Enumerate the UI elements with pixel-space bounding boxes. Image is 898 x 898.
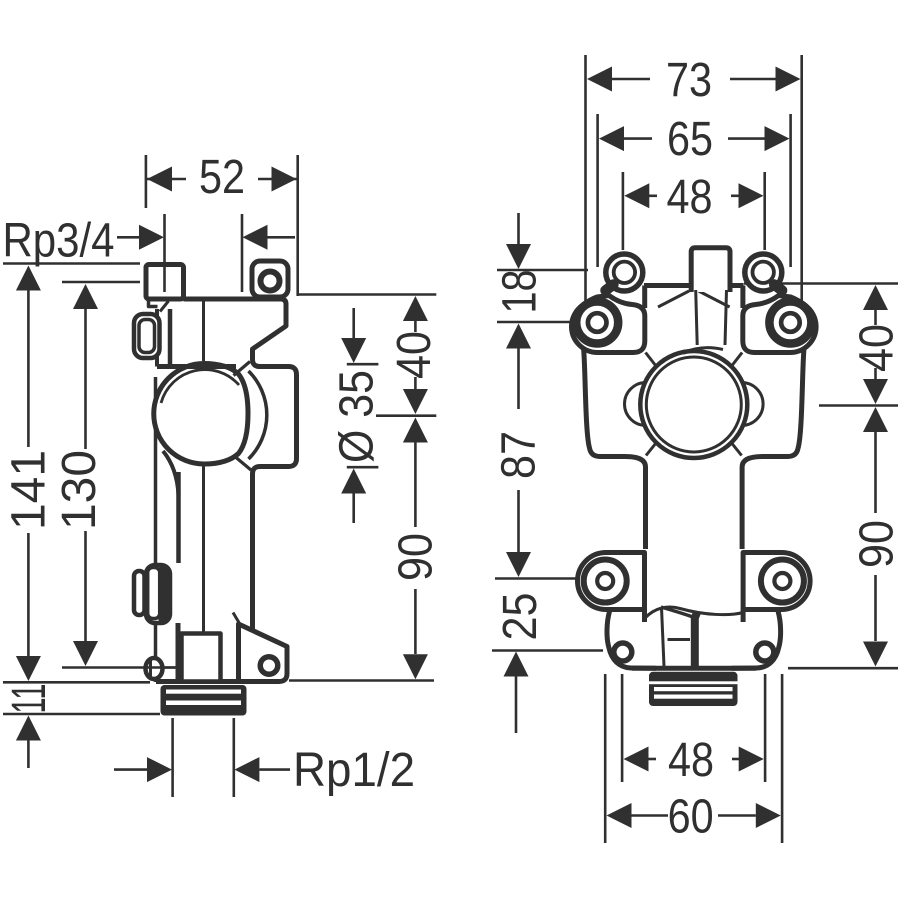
bottom small clip bbox=[134, 571, 145, 615]
dimension 90 right view bbox=[863, 407, 888, 667]
wire: 48 ext left bbox=[622, 172, 625, 250]
dimension Rp3/4 leader bbox=[117, 225, 295, 250]
svg-text:90: 90 bbox=[851, 520, 898, 568]
svg-text:60: 60 bbox=[668, 791, 714, 844]
body right outline with step bbox=[253, 299, 297, 631]
valve body bulge bbox=[154, 364, 248, 465]
dimension 40 right view bbox=[863, 285, 888, 404]
svg-text:73: 73 bbox=[666, 54, 712, 107]
plate right side and shoulder bbox=[742, 348, 804, 549]
side lobe right bbox=[742, 383, 764, 426]
foot bracket bbox=[239, 624, 288, 682]
svg-text:141: 141 bbox=[3, 450, 56, 530]
dimension 60 bbox=[607, 803, 781, 828]
wire: 18 ref top bbox=[497, 269, 588, 272]
ear blob tail right bbox=[774, 285, 782, 291]
wire: bottom ref right bbox=[788, 667, 898, 670]
bottom clip inner bbox=[148, 568, 160, 619]
svg-text:90: 90 bbox=[390, 533, 443, 581]
bottom tab right bbox=[732, 612, 781, 669]
wire: 11 bottom ref line bbox=[3, 713, 160, 716]
screw pin bbox=[146, 658, 163, 679]
big bore inner ring bbox=[646, 357, 741, 452]
washer bbox=[576, 302, 618, 344]
ear hole left view bbox=[261, 272, 280, 291]
bracket peak tick bbox=[233, 613, 241, 627]
svg-text:87: 87 bbox=[493, 431, 546, 479]
washer pad top-right bbox=[743, 296, 816, 353]
inner arc of bulge bbox=[161, 370, 239, 403]
diagonal tick under tab bbox=[160, 301, 169, 312]
neck stub below pad bbox=[642, 610, 647, 623]
dimension Rp1/2 bbox=[114, 757, 290, 782]
wire: Rp1/2 ext line right bbox=[233, 718, 236, 797]
bottom washer right outer bbox=[761, 560, 804, 603]
wire: 25 ref bottom bbox=[492, 649, 603, 652]
side lobe bbox=[625, 383, 647, 426]
crescent arc right of bulge bbox=[249, 371, 267, 459]
lever detail bottom centre bbox=[662, 608, 665, 667]
plate corner stub right bbox=[740, 286, 745, 309]
plate corner stub bbox=[642, 286, 647, 309]
socket block bbox=[182, 634, 221, 682]
wire: 18 ref bottom bbox=[497, 321, 585, 324]
svg-text:Rp1/2: Rp1/2 bbox=[293, 744, 415, 797]
cone tick bore to shoulder bbox=[646, 443, 656, 456]
washer top-right outer bbox=[769, 302, 811, 344]
chamfer tick tab to washer right bbox=[699, 291, 730, 307]
top clip inner bbox=[139, 320, 155, 353]
wire: 90 bottom ref line left view bbox=[289, 679, 434, 682]
side and shoulder outline bbox=[584, 348, 646, 549]
dimension 73 bbox=[587, 67, 801, 92]
body top edge bbox=[184, 297, 284, 302]
svg-text:18: 18 bbox=[494, 270, 547, 314]
wire: Rp1/2 ext line left bbox=[171, 718, 174, 797]
tab interior lines bbox=[696, 290, 698, 345]
dimension diameter 35 bbox=[341, 308, 378, 523]
cone tick upper bbox=[234, 362, 251, 376]
neck bottom arc bbox=[645, 607, 743, 618]
threaded connector left view bbox=[161, 685, 247, 716]
wire: interior bore line upper bbox=[202, 299, 205, 361]
chamfer tick tab to washer bbox=[658, 291, 689, 307]
svg-text:52: 52 bbox=[199, 151, 245, 204]
wire: Rp3/4 second ext line bbox=[241, 214, 244, 292]
bottom pad right bbox=[743, 553, 810, 610]
washer top-right inner bbox=[781, 313, 800, 332]
ledge under tab bbox=[157, 364, 236, 369]
dimension 48 top bbox=[624, 183, 763, 208]
svg-text:65: 65 bbox=[667, 113, 713, 166]
wire: extension line 52 left bbox=[145, 155, 148, 208]
wire: rail lower verticals bbox=[154, 623, 158, 682]
svg-text:40: 40 bbox=[851, 324, 898, 372]
wire: bottom 60 ext right bbox=[781, 674, 784, 843]
wire: bottom 48 ext left bbox=[621, 674, 624, 782]
bottom edge bbox=[632, 666, 756, 671]
dimension 11 bbox=[16, 716, 41, 769]
wire: top edge extension to 40 dim bbox=[298, 293, 436, 296]
wire: circle centre ref line left view bbox=[376, 414, 436, 417]
dimension 130 bbox=[73, 284, 98, 666]
dimension 87 bbox=[506, 490, 531, 577]
bottom pad bbox=[578, 553, 645, 610]
ear ring top-right bbox=[752, 262, 773, 283]
wire: bottom 60 ext left bbox=[604, 674, 607, 843]
top clip outer bbox=[134, 314, 160, 358]
washer pad top bbox=[572, 296, 645, 353]
cone tick pad to bore right bbox=[732, 353, 743, 367]
ear blob top-right bbox=[745, 254, 782, 291]
wire: 65 ext left bbox=[596, 114, 599, 267]
wire: 48 ext right bbox=[763, 172, 766, 250]
wire: 141 top ref line bbox=[3, 262, 140, 265]
ear tab left view bbox=[252, 261, 288, 297]
bottom ear ring bbox=[614, 643, 632, 661]
right half of plate body (mirrored) bbox=[699, 254, 817, 668]
wire: 73 ext left bbox=[584, 55, 587, 350]
svg-text:Ø 35: Ø 35 bbox=[331, 370, 384, 463]
left half of plate body bbox=[572, 254, 690, 668]
threaded connector right view bbox=[649, 672, 738, 706]
wire: 65 ext right bbox=[789, 114, 792, 267]
dimension 52 bbox=[147, 167, 297, 192]
wire: 130 top ref line bbox=[62, 281, 140, 284]
bottom washer bbox=[584, 560, 627, 603]
svg-text:130: 130 bbox=[53, 450, 106, 530]
wire: 141 bottom ref line bbox=[3, 681, 150, 684]
top tab bbox=[146, 265, 184, 300]
wire: tab centreline inside tab bbox=[163, 267, 166, 292]
dimension 18 bbox=[506, 213, 531, 409]
wire: interior bore line lower bbox=[202, 466, 205, 633]
svg-text:11: 11 bbox=[3, 684, 56, 714]
wire: Rp3/4 ext line at tab centre bbox=[163, 214, 166, 262]
bottom ear ring right bbox=[756, 643, 774, 661]
rail upper verticals bbox=[155, 309, 159, 367]
svg-text:40: 40 bbox=[388, 331, 441, 379]
neck stub right bbox=[741, 610, 746, 623]
cone tick bore to shoulder right bbox=[732, 443, 742, 456]
wire: bottom 48 ext right bbox=[764, 674, 767, 782]
wire: 130 bottom ref line through screw bbox=[62, 666, 176, 669]
wire: extension line 52 right / body right plane bbox=[296, 155, 299, 296]
wire: rail mid verticals bbox=[154, 377, 158, 563]
dimension 25 bbox=[504, 652, 529, 734]
dimension 65 bbox=[599, 126, 790, 151]
wire: top edge extension right bbox=[744, 282, 898, 285]
cone tick pad to bore bbox=[646, 353, 657, 367]
bottom tab bbox=[607, 612, 656, 669]
svg-text:48: 48 bbox=[667, 171, 713, 224]
svg-text:Rp3/4: Rp3/4 bbox=[3, 215, 115, 268]
svg-text:48: 48 bbox=[668, 734, 714, 787]
plate top edge bbox=[644, 283, 691, 288]
bracket hole bbox=[260, 657, 278, 675]
bottom edge left view bbox=[156, 679, 240, 684]
dimension 90 left view bbox=[403, 418, 428, 680]
wire: 25 ref top bbox=[495, 577, 588, 580]
bottom clip dark bar bbox=[159, 566, 171, 624]
dimension 48 bottom bbox=[624, 747, 764, 772]
dimension 40 left view bbox=[403, 296, 428, 414]
big bore outer ring bbox=[640, 351, 747, 458]
svg-text:25: 25 bbox=[494, 593, 547, 641]
wire: 73 ext right bbox=[800, 55, 803, 350]
bottom washer right inner bbox=[774, 573, 790, 589]
cone tick lower bbox=[233, 455, 251, 470]
ear ring bbox=[614, 262, 635, 283]
dimension 141 bbox=[16, 266, 41, 682]
ear blob bbox=[606, 254, 643, 291]
bottom clip outer bbox=[146, 565, 170, 623]
wire: circle centre ref right bbox=[819, 404, 898, 407]
top tab right view bbox=[691, 248, 730, 292]
